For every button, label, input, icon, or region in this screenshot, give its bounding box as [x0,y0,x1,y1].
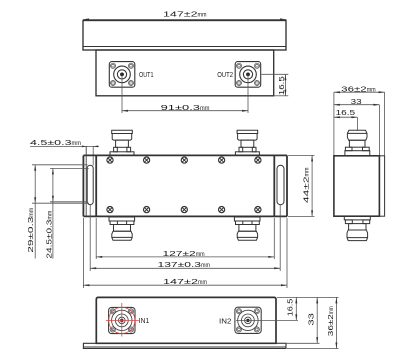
side view bottom connector [344,216,370,240]
front view outer outline [83,155,287,216]
bottom view body [96,297,276,343]
dimension 147±2mm (top) [83,19,286,20]
svg-text:127±2mm: 127±2mm [163,249,205,258]
dimension 4.5±0.3mm [30,146,99,165]
front view top connector 2 [235,130,259,155]
dimension 127±2mm [96,218,274,259]
flange IN1 [109,307,135,333]
svg-text:44±2mm: 44±2mm [301,168,310,204]
dimension 91±0.3mm [122,74,248,113]
svg-text:4.5±0.3mm: 4.5±0.3mm [30,138,81,147]
svg-text:16.5: 16.5 [286,299,295,317]
svg-text:147±2mm: 147±2mm [163,277,207,286]
dimension 137±0.3mm [90,205,280,271]
svg-text:IN2: IN2 [219,318,232,325]
front view top connector 1 [110,130,134,155]
svg-text:33: 33 [307,313,316,326]
screws top row [107,157,261,163]
side view top connector [345,130,370,155]
left bracket inner edge [85,146,87,216]
dimension 36±2mm (side) [334,92,385,156]
front view bottom connector 2 [234,217,260,240]
bottom view plate [83,343,286,348]
svg-text:33: 33 [351,97,362,106]
svg-text:16.5: 16.5 [336,108,356,117]
dimension 33 (side) [334,105,380,156]
flange OUT2 [235,62,261,88]
right slot (stadium) [277,165,284,205]
dimension 29±0.3mm [32,165,89,259]
svg-text:36±2mm: 36±2mm [341,85,376,94]
svg-text:91±0.3mm: 91±0.3mm [161,103,210,112]
svg-text:OUT1: OUT1 [139,72,154,79]
svg-text:147±2mm: 147±2mm [163,10,207,19]
left slot (stadium) [87,165,93,205]
dimension 147±2mm (middle) [83,218,287,288]
svg-text:29±0.3mm: 29±0.3mm [26,208,35,253]
body (top view) [96,50,274,96]
svg-text:IN1: IN1 [139,318,150,325]
svg-text:24.5±0.3mm: 24.5±0.3mm [44,211,53,259]
flange OUT1 [109,62,135,88]
mounting plate (top view) [83,21,286,51]
svg-text:OUT2: OUT2 [217,72,233,79]
screws bottom row [107,207,261,213]
dimension 44±2mm [288,155,315,216]
red centerlines IN1 [106,303,139,337]
dimension 16.5 (bottom view) [236,297,339,320]
svg-text:137±0.3mm: 137±0.3mm [158,260,211,269]
side view body [334,156,380,216]
dimension 24.5±0.3mm [50,168,89,258]
front view bottom connector 1 [109,217,135,240]
svg-text:36±2mm: 36±2mm [326,306,335,336]
dimension 33 (bottom view) [277,297,320,343]
svg-text:16.5: 16.5 [277,76,286,95]
side view plate strip [379,156,384,216]
dimension 16.5 (side) [334,117,358,130]
dimension 16.5 (top view right) [262,74,289,96]
flange IN2 [235,307,261,333]
dimension 36±2mm (bottom view) [287,297,339,348]
